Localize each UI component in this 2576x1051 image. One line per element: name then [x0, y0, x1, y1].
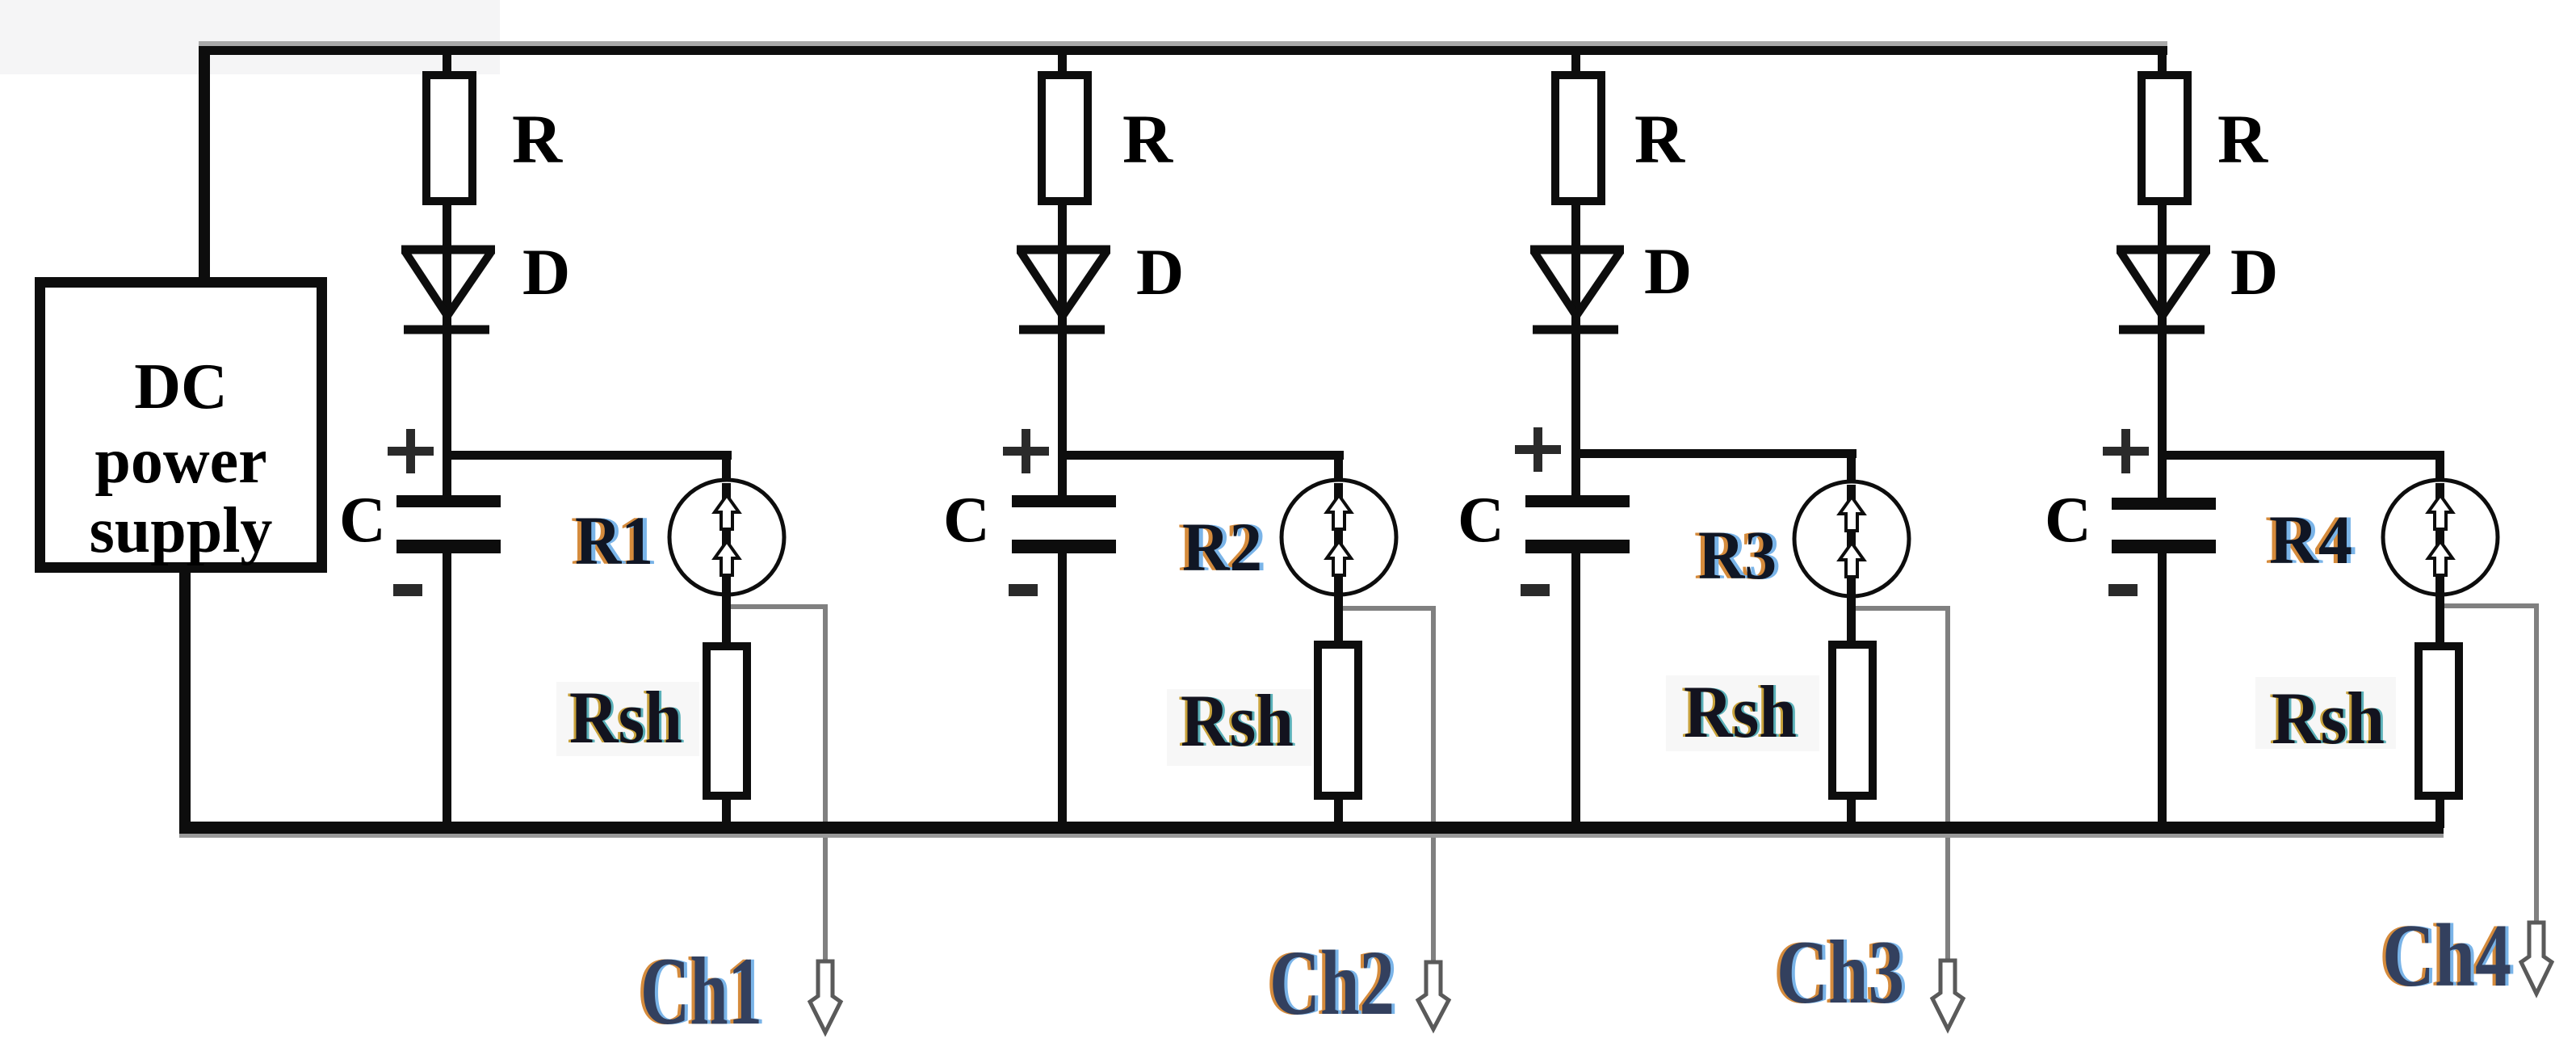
wire capacitor to bottom bus (ch1) [443, 553, 451, 828]
wire Rsh to bottom bus (ch4) [2435, 796, 2444, 828]
wire capacitor to bottom bus (ch2) [1058, 553, 1067, 828]
label Rsh (ch4) [2255, 677, 2396, 749]
output arrow Ch4 [2521, 923, 2552, 994]
svg-text:DC: DC [134, 351, 228, 423]
svg-text:R3: R3 [1698, 516, 1777, 594]
wire through current source (ch3) [1847, 485, 1856, 642]
wire node to capacitor [443, 460, 451, 498]
wire through current source (ch1) [722, 483, 731, 642]
minus sign (ch1) [393, 584, 422, 596]
minus sign (ch3) [1521, 584, 1550, 596]
wire R through diode to plus node [443, 205, 451, 460]
diode D (ch4) [2117, 250, 2210, 330]
svg-text:C: C [1458, 485, 1504, 556]
svg-text:Ch1: Ch1 [640, 937, 762, 1045]
shunt resistor Rsh (ch1) [707, 646, 747, 796]
wire capacitor to bottom bus (ch3) [1571, 553, 1580, 828]
wire Rsh to bottom bus (ch3) [1847, 796, 1856, 828]
svg-text:R: R [2217, 100, 2268, 178]
wire bottom bus [179, 822, 2444, 834]
wire R through diode to plus node [1571, 205, 1580, 460]
svg-text:C: C [339, 485, 386, 556]
wire plus node rail to current source (ch4) [2158, 451, 2444, 460]
svg-text:D: D [522, 235, 570, 309]
resistor R (ch2) [1042, 75, 1088, 201]
current source R1 circle [669, 480, 784, 595]
output arrow Ch1 [810, 961, 841, 1032]
capacitor C (ch4) [2112, 498, 2216, 510]
wire plus node rail to current source (ch3) [1571, 449, 1856, 458]
gray wire junction to output (ch4) [2444, 603, 2536, 608]
output arrow Ch2 [1418, 962, 1449, 1029]
wire top bus [199, 41, 2167, 46]
svg-text:power: power [94, 426, 266, 497]
wire R through diode to plus node [2158, 205, 2167, 460]
svg-text:R1: R1 [575, 502, 653, 579]
wire node to capacitor [1058, 460, 1067, 498]
capacitor C (ch3) [1525, 495, 1630, 507]
svg-text:D: D [1644, 234, 1692, 308]
wire through current source (ch2) [1334, 483, 1343, 642]
svg-text:R4: R4 [2269, 501, 2352, 578]
svg-text:Rsh: Rsh [2272, 677, 2385, 759]
wire node to capacitor [2158, 460, 2167, 498]
svg-text:D: D [2230, 235, 2278, 309]
current source arrows (ch4) [2428, 495, 2452, 529]
label Rsh (ch1) [556, 682, 699, 756]
svg-text:R: R [1634, 100, 1685, 178]
svg-text:Rsh: Rsh [1181, 679, 1294, 762]
capacitor C (ch2) [1012, 495, 1116, 507]
wire Rsh to bottom bus (ch2) [1334, 796, 1343, 828]
DC power supply U1 [40, 283, 322, 568]
svg-text:R: R [1122, 100, 1173, 178]
wire plus node rail to current source (ch2) [1058, 451, 1344, 460]
wire stub rail down to current source (ch2) [1334, 456, 1343, 485]
svg-text:supply: supply [90, 495, 273, 566]
gray wire junction to output (ch1) [731, 604, 828, 609]
diode D (ch1) [401, 250, 495, 330]
wire left branch from top bus to DC supply [199, 46, 210, 277]
resistor R (ch3) [1555, 75, 1601, 201]
diode D (ch3) [1530, 250, 1624, 330]
current source arrows (ch3) [1840, 497, 1864, 531]
capacitor C (ch1) [396, 495, 501, 507]
gray wire junction to output (ch2) [1343, 606, 1433, 611]
wire through current source (ch4) [2435, 483, 2444, 642]
minus sign (ch4) [2108, 584, 2138, 596]
wire capacitor to bottom bus (ch4) [2158, 553, 2167, 828]
svg-text:Ch3: Ch3 [1777, 923, 1904, 1023]
label Rsh (ch2) [1167, 689, 1311, 766]
wire stub rail down to current source (ch4) [2435, 456, 2444, 485]
wire node to capacitor [1571, 458, 1580, 497]
svg-text:C: C [943, 485, 990, 556]
wire R through diode to plus node [1058, 205, 1067, 460]
resistor R (ch1) [426, 75, 472, 201]
current source arrows (ch2) [1327, 495, 1351, 529]
resistor R (ch4) [2142, 75, 2188, 201]
minus sign (ch2) [1009, 584, 1038, 596]
output arrow Ch3 [1932, 961, 1963, 1029]
svg-text:Ch4: Ch4 [2382, 906, 2511, 1006]
svg-text:R2: R2 [1182, 508, 1262, 586]
svg-text:Ch2: Ch2 [1269, 931, 1395, 1034]
wire stub rail down to current source (ch3) [1847, 455, 1856, 485]
svg-text:C: C [2045, 485, 2091, 556]
diode D (ch2) [1017, 250, 1110, 330]
wire stub top bus to R [2158, 55, 2167, 73]
current source R3 circle [1794, 481, 1909, 596]
wire stub top bus to R [1058, 55, 1067, 73]
wire stub top bus to R [443, 55, 451, 73]
svg-text:Rsh: Rsh [1684, 671, 1797, 753]
plus sign (ch2) [1003, 447, 1049, 456]
wire stub top bus to R [1571, 55, 1580, 73]
svg-text:Rsh: Rsh [569, 676, 682, 759]
current source R4 circle [2383, 480, 2498, 595]
wire plus node rail to current source (ch1) [443, 451, 732, 460]
svg-text:R: R [512, 100, 563, 178]
current source R2 circle [1282, 480, 1396, 595]
label Rsh (ch3) [1666, 675, 1819, 751]
shunt resistor Rsh (ch2) [1318, 645, 1358, 796]
shunt resistor Rsh (ch4) [2419, 646, 2459, 796]
current source arrows (ch1) [715, 495, 739, 529]
shunt resistor Rsh (ch3) [1832, 645, 1873, 796]
plus sign (ch1) [388, 447, 434, 456]
plus sign (ch3) [1515, 445, 1561, 454]
wire DC supply bottom to bottom bus [179, 568, 191, 823]
svg-text:D: D [1136, 235, 1184, 309]
gray wire junction to output (ch3) [1856, 606, 1948, 611]
wire stub rail down to current source (ch1) [722, 456, 731, 485]
wire Rsh to bottom bus (ch1) [722, 796, 731, 828]
plus sign (ch4) [2103, 447, 2149, 456]
